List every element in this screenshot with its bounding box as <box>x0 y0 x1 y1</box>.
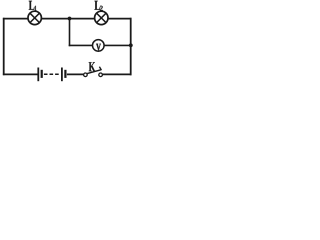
voltmeter V (meter) <box>93 40 105 52</box>
battery cell 1 long plate <box>37 68 39 82</box>
wire left vertical <box>3 18 5 75</box>
switch K handle tick <box>99 67 101 70</box>
wire junction to L2 <box>69 18 95 20</box>
switch K terminal circle right <box>99 73 103 77</box>
wire bottom-left segment <box>3 73 38 75</box>
wire right vertical <box>130 18 132 76</box>
wire voltmeter branch right horizontal <box>104 44 131 46</box>
lamp L2 <box>95 11 108 24</box>
lamp L1 <box>28 11 41 24</box>
wire top-left segment <box>3 18 28 20</box>
wire switch to bottom-right corner <box>102 73 131 75</box>
switch K lever <box>87 70 101 74</box>
wire voltmeter branch left horizontal <box>69 44 93 46</box>
wire battery to switch <box>67 73 84 75</box>
battery cell 2 short plate <box>64 70 66 78</box>
label L2 <box>95 1 103 11</box>
switch K terminal circle left <box>84 73 88 77</box>
battery cell 2 long plate <box>61 68 63 82</box>
label L1 <box>29 1 37 11</box>
wire voltmeter branch vertical <box>69 19 71 47</box>
wire top-right segment <box>108 18 132 20</box>
node junction dot on right wire <box>129 44 133 48</box>
node junction dot on top wire <box>68 17 72 21</box>
wire dashed between cells <box>44 73 60 75</box>
wire top middle segment L1 to junction <box>41 18 70 20</box>
battery cell 1 short plate <box>41 70 43 78</box>
label K <box>89 62 95 71</box>
